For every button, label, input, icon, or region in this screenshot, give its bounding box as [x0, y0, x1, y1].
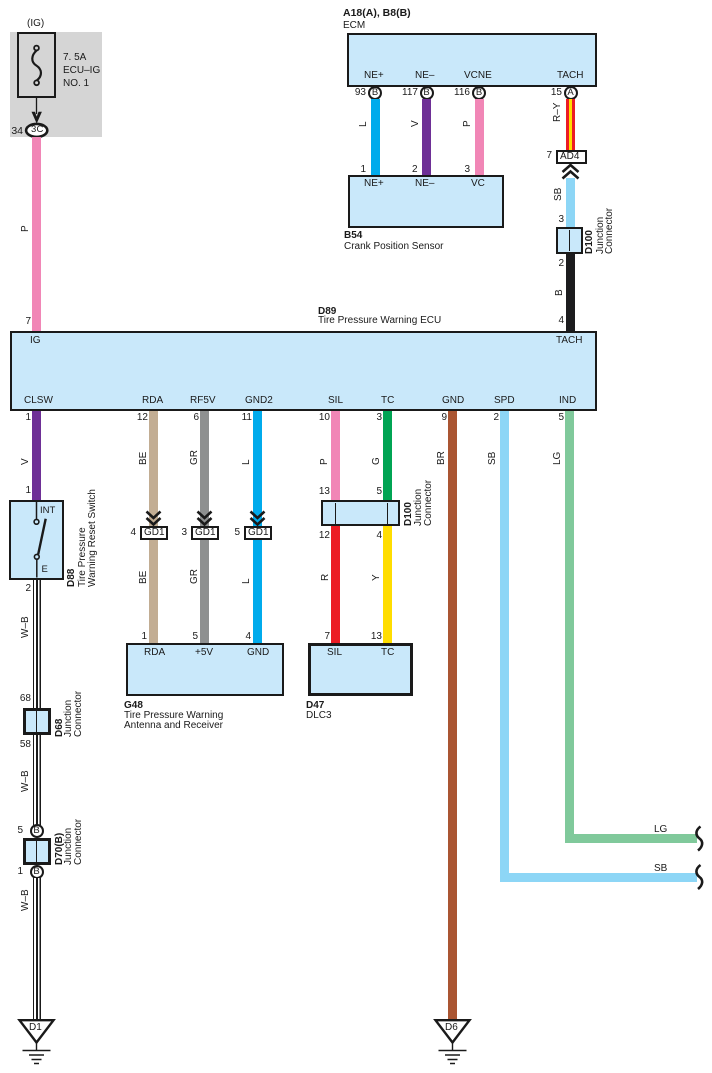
- D88 caption (rotated): [67, 569, 77, 587]
- squiggle LG: [696, 827, 702, 851]
- chevrons into GD1 (GR): [198, 512, 212, 525]
- wire SB AD4 to D100: [566, 178, 575, 227]
- ECM box: [347, 33, 597, 87]
- ECM pin label TACH: [557, 70, 583, 81]
- pin 93 circle B: [346, 88, 366, 98]
- pin 1 circle B of D70: [8, 867, 23, 877]
- ECM title: [343, 8, 411, 19]
- label SB: [554, 188, 564, 201]
- D89 pin label GND2: [245, 395, 273, 406]
- label P: [320, 458, 330, 465]
- pin 13 of D100: [311, 487, 330, 497]
- value label 7.5A ECU-IG NO.1: [63, 51, 100, 90]
- wire LG horizontal run: [565, 834, 698, 843]
- wire GR D89 to GD1: [200, 411, 209, 527]
- wire R D100 to D47: [331, 526, 340, 643]
- label V: [411, 120, 421, 127]
- wire BE D89 to GD1: [149, 411, 158, 527]
- G48 pin label GND: [247, 647, 269, 658]
- label (IG): [27, 18, 44, 29]
- junction connector D68: [23, 708, 51, 736]
- pin 1 of B54: [351, 165, 366, 175]
- pin 68 of D68: [11, 694, 31, 704]
- wire BR GND D89 to ground D6: [448, 411, 457, 1020]
- connector GD1 (pin 3): [169, 528, 187, 538]
- wire V D89 to D88: [32, 411, 41, 500]
- wire LG IND D89 down and right: [565, 411, 574, 844]
- D47 pin label SIL: [327, 647, 342, 658]
- pin 5 circle B of D70: [8, 826, 23, 836]
- label L: [242, 578, 252, 584]
- label BE: [139, 571, 149, 584]
- pin 4 of D100: [364, 531, 382, 541]
- label V: [21, 458, 31, 465]
- squiggle SB: [696, 865, 702, 889]
- D89 pin label GND: [442, 395, 464, 406]
- wire L GD1 to G48: [253, 540, 262, 644]
- label Y: [372, 574, 382, 581]
- pin 5 IND: [546, 413, 564, 423]
- connector oval 3C: [26, 124, 47, 137]
- B54 pin label NE+: [364, 178, 384, 189]
- pin 116 circle B: [446, 88, 470, 98]
- label L: [242, 459, 252, 465]
- D68 caption (rotated): [55, 719, 65, 737]
- pin 2 of B54: [403, 165, 418, 175]
- pin 12 of D100: [311, 531, 330, 541]
- D89 pin label CLSW: [24, 395, 53, 406]
- D89 pin label RDA: [142, 395, 163, 406]
- switch D88 box: [9, 500, 64, 580]
- D89 pin label RF5V: [190, 395, 216, 406]
- D89 title: [318, 306, 336, 317]
- ECM pin label NE+: [364, 70, 384, 81]
- pin 5 of D100: [364, 487, 382, 497]
- wire R-Y ECM to AD4: [566, 99, 575, 150]
- label G: [372, 457, 382, 465]
- connector AD4: [533, 151, 552, 161]
- label SB: [488, 452, 498, 465]
- pin 7 of D47: [312, 632, 330, 642]
- arrowhead: [32, 112, 42, 124]
- pin 12 RDA: [127, 413, 148, 423]
- label GR: [190, 450, 200, 465]
- B54 box: [348, 175, 504, 228]
- label L: [359, 121, 369, 127]
- wire W-B D88 to D68: [33, 580, 41, 708]
- label P: [463, 120, 473, 127]
- connector GD1 (pin 4): [118, 528, 136, 538]
- wire W-B D68 to D70: [33, 735, 41, 825]
- label LG: [553, 452, 563, 465]
- label BR: [437, 451, 447, 465]
- ECM pin label NE-: [415, 70, 434, 81]
- wire L ECM to B54: [371, 99, 380, 175]
- D47 pin label TC: [381, 647, 394, 658]
- wire P from fuse to D89 pin7: [32, 137, 41, 331]
- label R: [321, 574, 331, 581]
- B54 pin label VC: [471, 178, 485, 189]
- D89 pin label SIL: [328, 395, 343, 406]
- pin 34: [5, 126, 23, 136]
- wire P ECM to B54: [475, 99, 484, 175]
- pin 1 of G48: [129, 632, 147, 642]
- G48 pin label +5V: [195, 647, 213, 658]
- pin 11 GND2: [231, 413, 252, 423]
- pin 7 of D89 IG: [11, 317, 31, 327]
- D89 pin label SPD: [494, 395, 515, 406]
- D47 box: [308, 643, 413, 696]
- fuse ECU-IG NO.1: [17, 32, 56, 98]
- G48 caption: [124, 700, 143, 711]
- junction connector D100 (top): [556, 227, 584, 254]
- pin 10 SIL: [309, 413, 330, 423]
- label LG at continuation: [654, 824, 667, 835]
- wire SB horizontal run: [500, 873, 698, 882]
- wire SB SPD D89 down and right: [500, 411, 509, 882]
- label GR: [190, 569, 200, 584]
- label W-B: [21, 616, 31, 638]
- chevrons into GD1 (L): [251, 512, 265, 525]
- switch contacts D88: [34, 502, 46, 578]
- pin 3 TC: [365, 413, 382, 423]
- pin 4 of D89 TACH: [546, 316, 564, 326]
- pin 58 of D68: [11, 740, 31, 750]
- junction connector D70(B): [23, 838, 51, 865]
- pin 4 of G48: [233, 632, 251, 642]
- D89 pin label IG: [30, 335, 41, 346]
- wire V ECM to B54: [422, 99, 431, 175]
- wire B D100 to D89 TACH: [566, 254, 575, 331]
- D89 pin label IND: [559, 395, 576, 406]
- pin 5 of G48: [180, 632, 198, 642]
- wire BE GD1 to G48: [149, 540, 158, 644]
- D100 caption (rotated): [404, 502, 414, 526]
- pin 2 of D88: [12, 584, 31, 594]
- shield chevrons to AD4: [563, 165, 579, 179]
- wire Y D100 to D47: [383, 526, 392, 643]
- D100 caption (rotated): [585, 230, 595, 254]
- fuse block shading: [10, 32, 102, 137]
- pin 3 of D100: [546, 215, 564, 225]
- D89 Tire Pressure Warning ECU box: [10, 331, 597, 411]
- connector label 3C: [31, 124, 44, 135]
- wire G TC D89 to D100: [383, 411, 392, 501]
- pin 1 of D88: [12, 486, 31, 496]
- wire P SIL D89 to D100: [331, 411, 340, 501]
- pin 6 RF5V: [181, 413, 199, 423]
- label P: [21, 225, 31, 232]
- label B: [555, 289, 565, 296]
- pin 2 SPD: [481, 413, 499, 423]
- label SB at continuation: [654, 863, 667, 874]
- wire GR GD1 to G48: [200, 540, 209, 644]
- label R-Y: [553, 103, 563, 122]
- label W-B: [21, 889, 31, 911]
- pin 117 circle B: [394, 88, 418, 98]
- G48 box: [126, 643, 284, 696]
- B54 caption: [344, 230, 362, 241]
- ECM pin label VCNE: [464, 70, 492, 81]
- chevrons into GD1 (BE): [147, 512, 161, 525]
- B54 pin label NE-: [415, 178, 434, 189]
- pin 3 of B54: [455, 165, 470, 175]
- pin 1 CLSW: [12, 413, 31, 423]
- G48 pin label RDA: [144, 647, 165, 658]
- D70(B) caption (rotated): [55, 833, 65, 865]
- fuse element symbol: [32, 46, 41, 86]
- D89 pin label TACH: [556, 335, 582, 346]
- pin 9 GND: [429, 413, 447, 423]
- pin 15 circle A: [542, 88, 562, 98]
- pin 13 of D47: [362, 632, 382, 642]
- junction connector D100 (middle): [321, 500, 400, 526]
- D47 caption: [306, 700, 324, 711]
- wire fuse to connector 3C: [36, 98, 38, 114]
- connector GD1 (pin 5): [222, 528, 240, 538]
- wire L D89 to GD1: [253, 411, 262, 527]
- wire W-B D70 to ground D1: [33, 878, 41, 1019]
- label W-B: [21, 770, 31, 792]
- D89 pin label TC: [381, 395, 394, 406]
- pin 2 of D100: [546, 259, 564, 269]
- label BE: [139, 452, 149, 465]
